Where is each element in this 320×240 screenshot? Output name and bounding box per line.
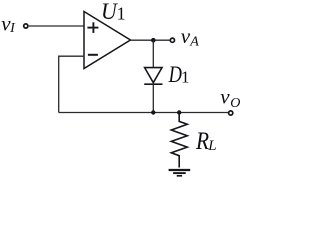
- label U1: [101, 0, 126, 24]
- junction dot at diode-cathode / bottom rail: [151, 110, 155, 114]
- wire feedback from op-amp - input: [59, 56, 84, 112]
- wire vI terminal to op-amp + input: [29, 25, 84, 27]
- svg-text:U: U: [101, 0, 118, 24]
- label vI: [1, 11, 16, 36]
- svg-text:v: v: [220, 85, 230, 109]
- wire node A down to diode anode: [152, 40, 154, 67]
- op-amp U1: [84, 12, 131, 69]
- svg-text:R: R: [195, 128, 209, 155]
- node vA terminal: [170, 38, 174, 42]
- node vO output terminal: [229, 111, 233, 115]
- svg-text:L: L: [207, 138, 216, 154]
- op-amp - input symbol: [88, 54, 98, 56]
- svg-text:v: v: [181, 24, 191, 48]
- wire bottom rail: [59, 112, 228, 114]
- svg-text:A: A: [189, 35, 199, 50]
- label vO: [220, 85, 240, 111]
- label D1: [168, 62, 190, 87]
- label vA: [181, 24, 200, 50]
- ground: [169, 170, 191, 176]
- wire op-amp output to vA terminal: [131, 39, 170, 41]
- resistor RL: [171, 113, 187, 168]
- wire diode cathode down to bottom node: [152, 84, 154, 112]
- label RL: [195, 128, 217, 155]
- svg-text:1: 1: [181, 67, 190, 86]
- node vI input terminal: [24, 24, 28, 28]
- junction dot at node A: [151, 38, 156, 43]
- junction dot at resistor top: [177, 110, 181, 114]
- svg-text:1: 1: [117, 4, 126, 24]
- svg-text:O: O: [230, 96, 240, 111]
- op-amp + input symbol: [87, 22, 98, 33]
- diode D1: [144, 68, 162, 85]
